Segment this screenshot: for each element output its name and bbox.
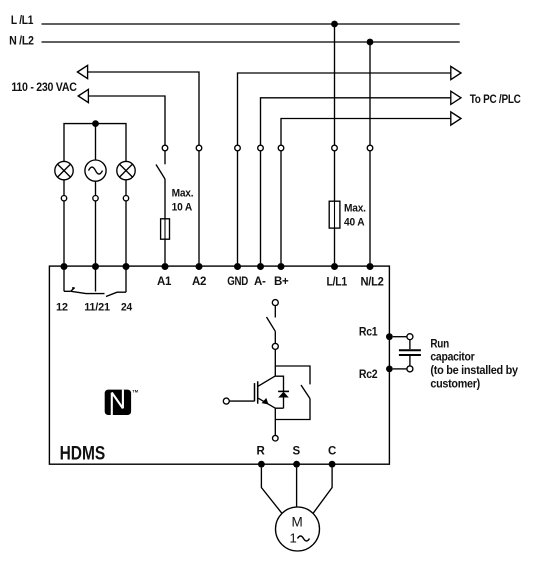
svg-text:1: 1 — [290, 531, 297, 546]
arrow right row3 — [451, 112, 461, 125]
wire A1 to fuse — [164, 179, 166, 219]
wire lamp bus — [64, 124, 126, 162]
AC source — [85, 160, 106, 181]
run capacitor C1 — [409, 340, 411, 350]
wire L/L1 to fuse — [334, 151, 336, 201]
svg-text:Run: Run — [430, 338, 449, 350]
IGBT body bar — [257, 381, 259, 403]
motor M1 — [276, 507, 320, 551]
svg-text:M: M — [292, 515, 303, 530]
wire R to motor — [261, 468, 282, 514]
box terminal dot R — [258, 461, 265, 468]
wire B+ to box — [280, 151, 282, 263]
wire A- to box — [260, 151, 262, 263]
wire to box 24 — [125, 201, 127, 263]
wire row1 right (GND to PC) — [238, 73, 451, 145]
arrow right row1 — [451, 66, 461, 79]
wire row2 right (A- to PC) — [261, 98, 451, 145]
svg-text:Max.: Max. — [344, 203, 366, 215]
wire N/L2 top line — [42, 41, 460, 43]
diode branch wires — [275, 376, 283, 408]
svg-text:(to be installed by: (to be installed by — [430, 365, 518, 377]
junction lamp bus — [92, 120, 99, 127]
internal node circle mid — [272, 343, 278, 349]
svg-text:Max.: Max. — [172, 188, 194, 200]
wire GND to box — [237, 151, 239, 263]
relay blade 12 to 11/21 — [71, 291, 105, 293]
IGBT gate bar — [254, 383, 256, 401]
svg-text:Rc2: Rc2 — [359, 369, 378, 381]
diode D1 — [278, 390, 289, 392]
relay blade to 24 — [106, 292, 126, 296]
svg-text:B+: B+ — [274, 276, 289, 288]
svg-text:L/L1: L/L1 — [327, 277, 348, 289]
relay contact 11/21 — [95, 267, 97, 292]
arrow left row1 — [77, 65, 87, 78]
box terminal dot 11/21 — [92, 263, 99, 270]
terminal circle N/L2 — [367, 145, 373, 151]
svg-text:capacitor: capacitor — [430, 352, 475, 364]
wire C to motor — [313, 468, 332, 514]
wire row2 left (VAC to A1) — [88, 96, 165, 145]
svg-text:HDMS: HDMS — [60, 443, 106, 464]
box terminal dot L/L1 — [331, 263, 338, 270]
svg-text:A-: A- — [254, 276, 266, 288]
wire A2 to box — [198, 151, 200, 263]
box terminal dot 12 — [61, 263, 68, 270]
svg-text:24: 24 — [121, 301, 133, 313]
wire lamp right to terminal — [125, 180, 127, 196]
IGBT emitter arrow — [262, 398, 269, 405]
lamp right — [117, 161, 135, 179]
IGBT gate lead — [229, 400, 254, 402]
lamp left — [55, 161, 73, 179]
IGBT collector lead — [258, 376, 275, 386]
svg-text:L /L1: L /L1 — [11, 15, 34, 27]
svg-text:C: C — [328, 446, 336, 458]
terminal circle 24 wire — [123, 196, 128, 201]
svg-text:Rc1: Rc1 — [359, 327, 378, 339]
box terminal dot 24 — [123, 263, 130, 270]
terminal circle A1 — [162, 145, 168, 151]
terminal circle 12 wire — [61, 196, 66, 201]
relay contact 12 — [63, 267, 65, 292]
svg-text:11/21: 11/21 — [84, 301, 110, 313]
wire emitter down — [274, 408, 276, 435]
box terminal dot GND — [234, 263, 241, 270]
arrow left row2 — [78, 89, 88, 102]
IGBT emitter lead — [258, 398, 275, 408]
internal switch — [274, 306, 276, 318]
terminal circle A- — [258, 145, 264, 151]
fuse F1 Max 10A — [161, 219, 170, 239]
wire lamp mid drop — [95, 124, 97, 160]
box terminal dot A1 — [162, 263, 169, 270]
svg-text:40 A: 40 A — [344, 217, 365, 229]
terminal circle L/L1 — [332, 145, 338, 151]
switch S1 on A1 — [164, 151, 166, 165]
box terminal dot A- — [257, 263, 264, 270]
svg-text:GND: GND — [227, 276, 248, 288]
svg-text:To PC /PLC: To PC /PLC — [470, 94, 521, 106]
terminal circle GND — [235, 145, 241, 151]
NFC logo — [105, 389, 139, 415]
bypass relay branch — [275, 366, 310, 420]
wire S to motor — [296, 468, 298, 507]
internal node circle top — [272, 300, 278, 306]
svg-text:TM: TM — [132, 389, 138, 394]
wire to box 11/21 — [95, 201, 97, 263]
wire fuse to box A1 — [164, 239, 166, 263]
svg-text:R: R — [257, 446, 266, 458]
junction on L/L1 line — [331, 21, 338, 28]
terminal circle A2 — [196, 145, 202, 151]
wire N/L2 to box — [369, 151, 371, 263]
svg-text:12: 12 — [56, 301, 68, 313]
box terminal dot S — [293, 461, 300, 468]
svg-text:A2: A2 — [192, 276, 206, 288]
box terminal dot N/L2 — [367, 263, 374, 270]
wire L/L1 top line — [42, 23, 460, 25]
cap terminal circle top — [407, 334, 413, 340]
svg-text:10 A: 10 A — [172, 201, 193, 213]
box terminal dot A2 — [196, 263, 203, 270]
wire fuse to box L/L1 — [334, 228, 336, 263]
svg-text:S: S — [293, 446, 301, 458]
label run capacitor — [430, 338, 518, 390]
wire to box 12 — [63, 201, 65, 263]
svg-text:customer): customer) — [430, 379, 480, 391]
svg-text:N /L2: N /L2 — [9, 35, 34, 47]
svg-text:N/L2: N/L2 — [361, 277, 384, 289]
wire Rc2 to cap — [393, 368, 407, 370]
wire main drop — [274, 349, 276, 376]
Rc1 terminal dot — [386, 333, 393, 340]
relay contact 24 — [125, 267, 127, 293]
terminal circle 11/21 wire — [93, 196, 98, 201]
Rc2 terminal dot — [386, 366, 393, 373]
svg-text:110 - 230 VAC: 110 - 230 VAC — [11, 82, 76, 94]
junction on N/L2 line — [367, 39, 374, 46]
wire L/L1 from top line — [334, 24, 336, 145]
cap terminal circle bottom — [407, 366, 413, 372]
wire row3 right (B+ to PC) — [281, 119, 451, 146]
wire lamp left to terminal — [63, 180, 65, 196]
IGBT Q1 gate terminal — [223, 398, 229, 404]
box terminal dot C — [329, 461, 336, 468]
internal node circle bottom — [273, 435, 279, 441]
fuse F2 Max 40A — [329, 201, 340, 228]
box terminal dot B+ — [278, 263, 285, 270]
arrow right row2 — [451, 91, 461, 104]
terminal circle B+ — [278, 145, 284, 151]
wire N/L2 from top line — [369, 42, 371, 145]
wire row1 left (VAC to A2) — [88, 72, 199, 145]
wire AC to terminal — [95, 181, 97, 195]
HDMS device box — [49, 266, 389, 464]
svg-text:A1: A1 — [157, 276, 172, 288]
wire Rc1 to cap — [393, 336, 407, 338]
